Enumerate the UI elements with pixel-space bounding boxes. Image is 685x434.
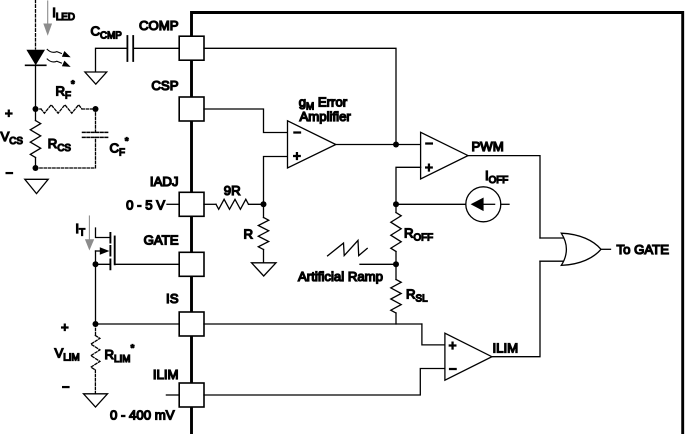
- resistor 9R: [216, 199, 249, 209]
- wire: COMP internal to node D: [204, 48, 396, 144]
- wire: error amp noninverting input down to node E: [264, 157, 288, 205]
- comparator U2 PWM: [421, 132, 468, 179]
- svg-text:RCS: RCS: [48, 136, 72, 154]
- wire: OR gate input stubs: [540, 238, 566, 261]
- node I junction (IS rail left): [93, 321, 99, 327]
- wire: IS rail corner to ILIM comparator plus input: [422, 324, 445, 345]
- node D junction (COMP / error amp output): [393, 142, 399, 148]
- resistor RF (dashed): [41, 105, 82, 113]
- wire: IS rail: [96, 323, 422, 325]
- svg-text:RF: RF: [56, 83, 72, 101]
- svg-text:CCMP: CCMP: [91, 24, 123, 42]
- svg-text:CSP: CSP: [151, 78, 178, 93]
- wire: IOFF right stub: [501, 203, 509, 205]
- wire: CCMP left to ground: [96, 48, 128, 72]
- wire: dashed bottom link to CF: [36, 137, 96, 168]
- svg-text:*: *: [131, 343, 135, 354]
- wire: ROFF leads: [395, 204, 397, 264]
- wire: artificial ramp input: [360, 263, 396, 265]
- LED emission arrow 1: [47, 49, 70, 57]
- svg-text:*: *: [125, 136, 129, 147]
- svg-text:−: −: [449, 361, 457, 376]
- wire: R leads: [263, 204, 265, 262]
- pin IS: [179, 312, 204, 336]
- current arrow IT (gray): [85, 216, 94, 251]
- svg-text:Amplifier: Amplifier: [300, 109, 352, 124]
- pin GATE: [179, 252, 204, 276]
- node B junction (right of RF / CSP wire): [93, 106, 99, 112]
- wire: RLIM leads (dashed): [94, 324, 96, 394]
- svg-text:Artificial Ramp: Artificial Ramp: [298, 269, 383, 284]
- wire: LED anode dashed from top: [35, 0, 37, 49]
- svg-text:−: −: [6, 166, 14, 181]
- current source IOFF: [466, 187, 501, 222]
- svg-text:*: *: [71, 79, 75, 90]
- sawtooth ramp symbol: [328, 240, 368, 255]
- svg-text:−: −: [62, 380, 70, 395]
- svg-text:−: −: [293, 125, 301, 140]
- comparator U3 ILIM: [445, 333, 492, 380]
- svg-text:0 - 5 V: 0 - 5 V: [126, 197, 165, 212]
- pin CSP: [179, 97, 204, 121]
- resistor RSL: [391, 280, 401, 314]
- capacitor CF (dashed): [83, 132, 109, 137]
- svg-text:To GATE: To GATE: [617, 242, 670, 257]
- ground below R: [252, 263, 277, 276]
- wire: RCS leads: [35, 109, 37, 168]
- wire: RF leads (dashed): [36, 108, 96, 110]
- resistor RCS: [30, 121, 40, 158]
- node H junction (source/body tie): [93, 261, 99, 267]
- svg-text:ILED: ILED: [52, 5, 75, 23]
- svg-text:CF: CF: [110, 140, 126, 158]
- svg-text:+: +: [425, 160, 433, 175]
- svg-text:RSL: RSL: [406, 286, 428, 304]
- resistor R: [258, 218, 268, 250]
- node A junction (left of RF): [33, 106, 39, 112]
- wire: PWM output to OR gate top input: [468, 156, 540, 238]
- svg-text:ILIM: ILIM: [153, 367, 179, 382]
- wire: CSP internal to error amp inverting input: [204, 109, 288, 133]
- ground below RCS: [25, 179, 48, 193]
- IC boundary box: [192, 13, 683, 434]
- LED D1: [26, 50, 46, 66]
- wire: ILIM pin external stub: [166, 394, 179, 396]
- wire: LED cathode to node A: [35, 65, 37, 109]
- svg-text:PWM: PWM: [472, 139, 504, 154]
- capacitor CCMP: [127, 36, 133, 61]
- svg-text:ROFF: ROFF: [404, 225, 433, 243]
- svg-text:VLIM: VLIM: [55, 346, 80, 364]
- wire: 9R to node E: [249, 203, 264, 205]
- pin COMP: [179, 36, 204, 60]
- wire: OR gate output stub: [601, 248, 611, 250]
- wire: error amp output to PWM inverting input: [336, 144, 421, 146]
- current arrow ILED (gray): [43, 1, 52, 36]
- svg-text:+: +: [61, 320, 69, 335]
- svg-text:IADJ: IADJ: [150, 174, 179, 189]
- pin IADJ: [179, 192, 204, 216]
- pin ILIM: [179, 383, 204, 407]
- node E junction: [261, 201, 267, 207]
- transistor Q1 MOSFET: [96, 228, 115, 269]
- svg-text:ILIM: ILIM: [493, 340, 519, 355]
- wire: IADJ to 9R: [204, 203, 216, 205]
- resistor ROFF: [391, 213, 401, 252]
- wire: source down to IS rail: [95, 264, 97, 324]
- node F junction (ROFF top): [393, 201, 399, 207]
- wire: CF top lead (dashed): [95, 109, 97, 132]
- wire: CCMP to COMP pin: [133, 47, 179, 49]
- ground below CCMP: [85, 72, 107, 84]
- wire: ILIM pin to comparator inverting input: [204, 369, 445, 396]
- svg-text:COMP: COMP: [139, 18, 179, 33]
- svg-text:−: −: [425, 136, 433, 151]
- op-amp U1 gm error amplifier: [288, 121, 336, 168]
- node G junction (ramp node): [393, 261, 399, 267]
- svg-text:R: R: [244, 227, 254, 242]
- svg-text:IS: IS: [166, 291, 179, 306]
- node C junction (RCS bottom): [33, 165, 39, 171]
- wire: node F to current source: [396, 203, 466, 205]
- svg-text:9R: 9R: [224, 183, 241, 198]
- svg-text:IOFF: IOFF: [485, 168, 508, 186]
- svg-text:+: +: [449, 338, 457, 353]
- wire: gate lead to GATE pin: [115, 263, 180, 265]
- resistor RLIM (dashed): [91, 336, 100, 371]
- svg-text:0 - 400 mV: 0 - 400 mV: [110, 408, 175, 423]
- wire: PWM noninverting input to node F: [396, 167, 421, 204]
- wire: RSL leads: [395, 264, 397, 324]
- svg-text:IT: IT: [75, 221, 85, 239]
- svg-text:+: +: [293, 148, 301, 163]
- OR gate G1: [561, 233, 601, 265]
- svg-text:+: +: [5, 106, 13, 121]
- LED emission arrow 2: [47, 59, 70, 67]
- svg-text:GATE: GATE: [144, 233, 179, 248]
- svg-text:RLIM: RLIM: [105, 347, 131, 365]
- wire: ILIM comparator output to OR gate bottom input: [492, 261, 540, 357]
- wire: IADJ external stub: [167, 203, 179, 205]
- ground below RLIM: [84, 394, 108, 407]
- svg-text:VCS: VCS: [1, 129, 24, 147]
